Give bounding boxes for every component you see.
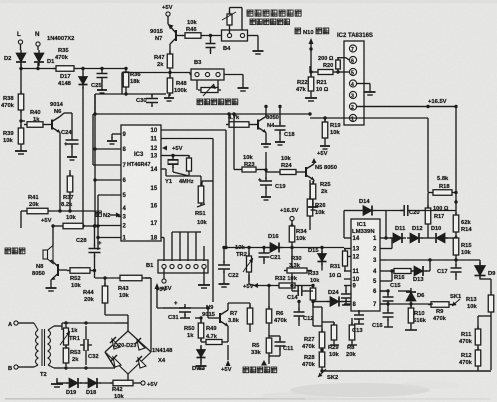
- IC2 pin4 ground: [357, 83, 370, 85]
- wire pin1 branch: [310, 117, 357, 119]
- ground bottom left: [51, 380, 63, 387]
- IC3 left pin wires: [95, 148, 121, 150]
- IC2 pin 2: [349, 103, 356, 110]
- wire bus x93 down: [92, 114, 94, 165]
- terminal +5V dw3: [227, 345, 229, 360]
- IC2 pin 6: [349, 56, 356, 63]
- wire pin5 stub: [386, 280, 392, 282]
- diode D9: [475, 263, 486, 280]
- wire pin2 stub: [386, 248, 392, 250]
- wire x456 vertical: [455, 107, 457, 203]
- wire N10 arrow: [309, 38, 314, 44]
- IC1 LM339N box: [351, 219, 380, 311]
- label thermal switch detect: [247, 10, 301, 16]
- wire D14 loop: [343, 211, 345, 239]
- IC2 pin 1: [349, 114, 356, 121]
- resistor R52 10k: [67, 268, 93, 274]
- bridge rectifier D20-D23: [105, 331, 151, 374]
- wire x310 from N10: [309, 66, 311, 72]
- B1 ground: [203, 269, 205, 281]
- capacitor C33 pin9: [345, 286, 347, 293]
- wire N4 emitter: [265, 133, 267, 141]
- wires to B1: [171, 232, 173, 261]
- ground under R22: [305, 94, 317, 101]
- thermistor below B3: [196, 80, 198, 90]
- label hotplate temp detect: [197, 99, 238, 105]
- resistor R51a: [187, 155, 192, 174]
- wire pin2 row diodes: [386, 237, 392, 239]
- switch SK2: [321, 370, 323, 371]
- wire pin8 row down: [312, 300, 314, 326]
- diode D1: [34, 50, 44, 66]
- B3 right wire and ground: [224, 74, 243, 76]
- wire R47 row: [122, 72, 170, 74]
- capacitor C29b: [209, 34, 212, 37]
- label to N2: [96, 211, 101, 217]
- zener DW3: [200, 345, 202, 349]
- wire to C25/R36: [77, 68, 126, 70]
- wire at pin3 arrow: [118, 216, 121, 218]
- wire speaker to +5V row: [52, 226, 54, 246]
- IC2 pin 3: [349, 91, 356, 98]
- buzzer label: [5, 248, 25, 254]
- wire R32 to R33: [298, 285, 313, 287]
- IC3 pin11 wire: [161, 138, 213, 140]
- resistor R14 62k: [455, 202, 457, 215]
- scan smudges: [5, 398, 305, 400]
- ground at IC3 pin9: [112, 133, 121, 135]
- wire N6 collector: [60, 113, 64, 117]
- IC3 pin12 +5V: [162, 146, 167, 151]
- buzzer speaker: [43, 246, 53, 264]
- thermal switch resistor: [227, 11, 232, 28]
- IC2 pin2 wire +16.5V: [357, 106, 456, 108]
- wire R44 path: [104, 306, 106, 315]
- IC2 pin 5: [349, 68, 356, 75]
- wire N9 collector: [227, 303, 229, 310]
- ground after C30: [152, 93, 166, 95]
- wire D9 down: [479, 277, 481, 279]
- wire top bus y114: [95, 113, 310, 115]
- wire left bus vertical: [94, 94, 96, 114]
- wire pin7 row: [380, 303, 433, 305]
- wire R17 to D10 row: [427, 227, 429, 238]
- terminal +5V bridge: [141, 381, 145, 385]
- scan noise filter: [0, 0, 1, 1]
- IC3 HT46R47 box: [121, 125, 161, 241]
- IC3 pin14 wire: [161, 168, 166, 170]
- label bridge rectifier terminal: [261, 360, 267, 366]
- wire pin13-14 join: [165, 169, 167, 176]
- bottom bus SK2 line: [322, 370, 491, 372]
- IC2 pin 4: [349, 80, 356, 87]
- IC2 pin 7: [349, 45, 356, 52]
- wire row 247: [226, 247, 344, 249]
- wire C19 up: [265, 152, 267, 172]
- ground under R39: [15, 147, 27, 154]
- ground B4: [248, 35, 258, 37]
- wire secondary rails: [54, 325, 62, 327]
- relay B4 box: [222, 30, 248, 41]
- wire R26 bottom: [309, 219, 311, 230]
- wire pin3 row: [386, 259, 456, 261]
- IC2 TA8316S box: [344, 41, 364, 125]
- bridge connections: [115, 322, 128, 324]
- wire R36 to row94: [125, 90, 127, 94]
- terminal +5V n9: [155, 283, 160, 289]
- IC3 pin10 wire: [161, 129, 226, 131]
- wire N6 emitter down: [59, 133, 61, 212]
- B1 +5V: [163, 269, 165, 279]
- crystal Y1 4MHz: [161, 155, 173, 157]
- wire pin4 row R16 D13: [386, 270, 392, 272]
- label to N10 base: [295, 28, 301, 34]
- ground under N8: [50, 280, 52, 284]
- wire AC bus: [20, 63, 22, 69]
- IC2 pin1 wire: [357, 117, 428, 119]
- wire bus x95: [94, 94, 96, 226]
